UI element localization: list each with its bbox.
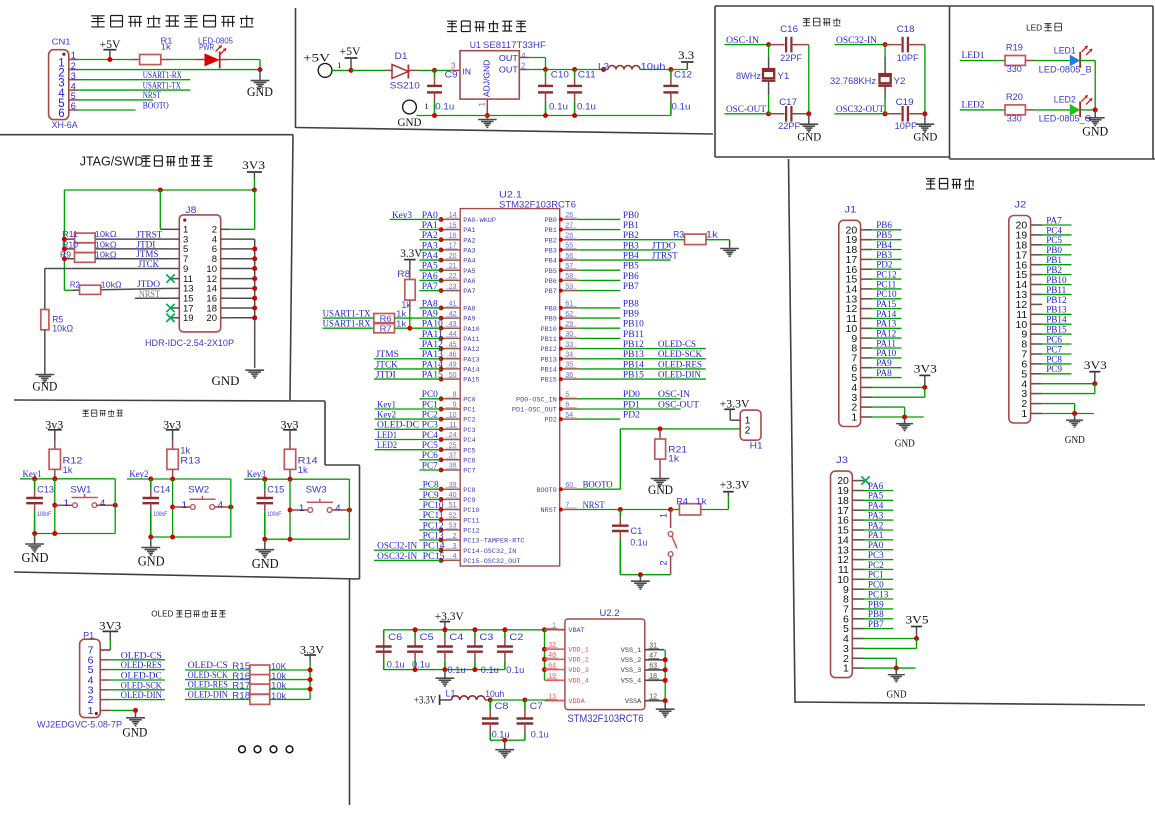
svg-text:JTCK: JTCK bbox=[138, 259, 159, 269]
svg-text:LED: LED bbox=[1026, 24, 1042, 33]
svg-text:PA3: PA3 bbox=[868, 511, 884, 521]
svg-text:C6: C6 bbox=[388, 632, 402, 643]
svg-text:OUT: OUT bbox=[499, 53, 518, 63]
svg-text:PA8: PA8 bbox=[463, 306, 475, 314]
svg-text:PB7: PB7 bbox=[545, 288, 557, 296]
svg-text:2: 2 bbox=[745, 425, 751, 436]
svg-text:VDD_3: VDD_3 bbox=[568, 667, 588, 675]
svg-text:U1: U1 bbox=[470, 40, 481, 50]
svg-text:+5V: +5V bbox=[303, 53, 331, 65]
svg-text:R15: R15 bbox=[232, 661, 250, 671]
svg-text:1: 1 bbox=[1021, 408, 1027, 420]
svg-text:PB9: PB9 bbox=[545, 316, 557, 324]
svg-text:PC2: PC2 bbox=[463, 417, 475, 425]
svg-text:0.1u: 0.1u bbox=[577, 102, 596, 112]
svg-text:PA10: PA10 bbox=[422, 319, 443, 329]
svg-text:PB5: PB5 bbox=[545, 268, 557, 276]
svg-text:0.1u: 0.1u bbox=[672, 102, 691, 112]
svg-text:VDD_2: VDD_2 bbox=[568, 657, 588, 665]
svg-text:PA9: PA9 bbox=[463, 316, 475, 324]
svg-text:1k: 1k bbox=[396, 319, 407, 329]
svg-text:OLED-DC: OLED-DC bbox=[121, 672, 162, 682]
svg-text:0.1u: 0.1u bbox=[448, 665, 466, 676]
svg-text:D1: D1 bbox=[395, 51, 408, 61]
svg-text:100nF: 100nF bbox=[267, 512, 281, 518]
svg-text:330: 330 bbox=[1007, 113, 1022, 123]
svg-text:PB2: PB2 bbox=[623, 230, 639, 240]
svg-text:OUT: OUT bbox=[499, 64, 518, 74]
svg-text:OLED-DIN: OLED-DIN bbox=[188, 691, 228, 701]
svg-text:VSS_3: VSS_3 bbox=[621, 667, 641, 675]
svg-text:ADJ/GND: ADJ/GND bbox=[482, 60, 492, 97]
svg-text:OLED-SCK: OLED-SCK bbox=[658, 349, 702, 359]
svg-text:OLED-CS: OLED-CS bbox=[188, 661, 228, 671]
svg-text:10uh: 10uh bbox=[485, 689, 504, 700]
svg-text:OLED-CS: OLED-CS bbox=[121, 651, 162, 661]
svg-text:0.1u: 0.1u bbox=[630, 537, 647, 548]
svg-text:PA0: PA0 bbox=[868, 540, 884, 550]
svg-text:OSC32-IN: OSC32-IN bbox=[377, 551, 417, 561]
svg-text:GND: GND bbox=[1082, 124, 1108, 138]
svg-text:PB1: PB1 bbox=[623, 220, 639, 230]
svg-text:VBAT: VBAT bbox=[568, 627, 584, 635]
svg-text:PB10: PB10 bbox=[540, 326, 556, 334]
svg-text:PA0: PA0 bbox=[422, 210, 438, 220]
svg-text:JTDO: JTDO bbox=[652, 240, 676, 250]
svg-text:4: 4 bbox=[71, 81, 76, 91]
svg-text:JTRST: JTRST bbox=[136, 230, 162, 240]
svg-text:PA8: PA8 bbox=[422, 298, 438, 308]
svg-text:1: 1 bbox=[182, 500, 187, 511]
svg-text:PC13: PC13 bbox=[423, 530, 444, 540]
svg-text:0.1u: 0.1u bbox=[481, 665, 499, 676]
svg-text:PB9: PB9 bbox=[623, 309, 639, 319]
svg-text:JTDI: JTDI bbox=[136, 239, 155, 249]
svg-text:PA2: PA2 bbox=[868, 520, 884, 530]
svg-text:PA13: PA13 bbox=[876, 319, 896, 329]
svg-text:PB6: PB6 bbox=[876, 220, 892, 230]
svg-text:PA11: PA11 bbox=[876, 338, 896, 348]
svg-text:0.1u: 0.1u bbox=[549, 102, 568, 112]
svg-text:OLED-DIN: OLED-DIN bbox=[121, 691, 162, 701]
svg-text:4: 4 bbox=[100, 498, 105, 509]
svg-text:PA13: PA13 bbox=[422, 349, 443, 359]
svg-text:PB15: PB15 bbox=[540, 377, 556, 385]
svg-text:PC5: PC5 bbox=[463, 447, 475, 455]
svg-text:Y1: Y1 bbox=[777, 71, 789, 81]
svg-text:+3.3V: +3.3V bbox=[414, 695, 437, 707]
svg-text:LED-0805_G: LED-0805_G bbox=[1039, 114, 1092, 124]
svg-text:PB14: PB14 bbox=[540, 367, 556, 375]
svg-text:PC15: PC15 bbox=[423, 551, 445, 561]
svg-text:Key2: Key2 bbox=[377, 410, 396, 420]
svg-text:Key1: Key1 bbox=[377, 399, 396, 409]
svg-text:J1: J1 bbox=[844, 204, 856, 215]
svg-text:4: 4 bbox=[335, 503, 340, 514]
svg-text:USART1-RX: USART1-RX bbox=[323, 319, 371, 329]
svg-text:10uh: 10uh bbox=[641, 62, 666, 72]
svg-text:PA7: PA7 bbox=[1046, 215, 1062, 225]
svg-text:PC7: PC7 bbox=[422, 460, 438, 470]
svg-text:PC14-OSC32_IN: PC14-OSC32_IN bbox=[463, 548, 516, 556]
svg-text:1k: 1k bbox=[668, 453, 679, 464]
svg-text:1: 1 bbox=[71, 51, 76, 61]
svg-text:PA2: PA2 bbox=[463, 237, 475, 245]
svg-text:1k: 1k bbox=[161, 42, 172, 52]
svg-text:PC11: PC11 bbox=[876, 279, 896, 289]
svg-text:R19: R19 bbox=[1006, 43, 1023, 53]
svg-text:1: 1 bbox=[299, 503, 304, 514]
svg-text:22PF: 22PF bbox=[778, 121, 801, 131]
svg-text:1: 1 bbox=[851, 412, 857, 424]
svg-text:PA5: PA5 bbox=[868, 491, 884, 501]
svg-text:0.1u: 0.1u bbox=[387, 660, 405, 671]
svg-text:PC6: PC6 bbox=[422, 450, 438, 460]
svg-text:0.1u: 0.1u bbox=[492, 730, 510, 741]
svg-text:PA2: PA2 bbox=[422, 230, 438, 240]
svg-text:PC13: PC13 bbox=[868, 589, 889, 599]
svg-text:PC1: PC1 bbox=[463, 407, 475, 415]
svg-text:JTRST: JTRST bbox=[652, 251, 678, 261]
svg-text:PA12: PA12 bbox=[422, 339, 443, 349]
svg-text:GND: GND bbox=[398, 117, 422, 129]
svg-text:GND: GND bbox=[913, 132, 937, 144]
svg-text:1k: 1k bbox=[180, 446, 191, 456]
svg-text:PC2: PC2 bbox=[422, 410, 438, 420]
svg-text:3V5: 3V5 bbox=[906, 615, 929, 627]
svg-text:10kΩ: 10kΩ bbox=[52, 324, 73, 334]
svg-text:PB5: PB5 bbox=[876, 230, 892, 240]
svg-text:PC4: PC4 bbox=[463, 437, 475, 445]
svg-text:4: 4 bbox=[521, 52, 526, 61]
svg-text:PA14: PA14 bbox=[422, 359, 443, 369]
svg-text:PWR: PWR bbox=[199, 42, 214, 52]
svg-text:100nF: 100nF bbox=[153, 512, 167, 518]
svg-text:0.1u: 0.1u bbox=[412, 660, 430, 671]
svg-text:HDR-IDC-2.54-2X10P: HDR-IDC-2.54-2X10P bbox=[145, 338, 234, 349]
svg-text:GND: GND bbox=[1065, 435, 1085, 446]
svg-text:JTAG/SWD: JTAG/SWD bbox=[80, 154, 144, 168]
svg-text:NRST: NRST bbox=[583, 500, 605, 510]
svg-text:3.3: 3.3 bbox=[678, 50, 694, 62]
svg-text:PA1: PA1 bbox=[422, 220, 438, 230]
svg-text:PC5: PC5 bbox=[422, 440, 438, 450]
svg-text:NRST: NRST bbox=[540, 507, 556, 515]
svg-text:OLED-SCK: OLED-SCK bbox=[121, 681, 162, 691]
svg-text:22PF: 22PF bbox=[780, 53, 803, 63]
svg-text:PC12: PC12 bbox=[423, 520, 444, 530]
svg-text:PB12: PB12 bbox=[1046, 295, 1067, 305]
svg-text:GND: GND bbox=[895, 439, 915, 450]
svg-text:5: 5 bbox=[71, 91, 76, 101]
svg-text:R17: R17 bbox=[232, 680, 250, 690]
svg-text:PB4: PB4 bbox=[545, 258, 557, 266]
svg-text:C17: C17 bbox=[779, 97, 797, 107]
svg-text:USART1-TX: USART1-TX bbox=[143, 81, 181, 91]
svg-text:R14: R14 bbox=[298, 455, 318, 465]
svg-text:3V3: 3V3 bbox=[1084, 360, 1107, 372]
svg-text:VSS_1: VSS_1 bbox=[621, 647, 641, 655]
svg-text:J2: J2 bbox=[1014, 200, 1026, 211]
svg-text:PB1: PB1 bbox=[1046, 255, 1062, 265]
svg-text:GND: GND bbox=[247, 85, 273, 99]
svg-text:1: 1 bbox=[659, 513, 669, 518]
svg-text:C4: C4 bbox=[449, 632, 463, 643]
svg-text:GND: GND bbox=[138, 555, 165, 570]
svg-text:PA3: PA3 bbox=[422, 240, 438, 250]
svg-text:VSS_4: VSS_4 bbox=[621, 678, 641, 686]
svg-text:PB5: PB5 bbox=[623, 261, 639, 271]
svg-text:6: 6 bbox=[71, 101, 76, 111]
svg-text:PC13-TAMPER-RTC: PC13-TAMPER-RTC bbox=[463, 538, 524, 546]
svg-text:PA3: PA3 bbox=[463, 248, 475, 256]
svg-text:C1: C1 bbox=[630, 526, 642, 537]
svg-text:VDDA: VDDA bbox=[568, 698, 585, 706]
svg-text:+5V: +5V bbox=[340, 46, 362, 58]
svg-text:PB12: PB12 bbox=[623, 339, 644, 349]
svg-text:C19: C19 bbox=[896, 97, 914, 107]
svg-text:PD0: PD0 bbox=[623, 389, 640, 399]
svg-text:2: 2 bbox=[71, 61, 76, 71]
svg-text:PC12: PC12 bbox=[463, 528, 479, 536]
svg-text:C14: C14 bbox=[153, 485, 170, 496]
svg-text:C18: C18 bbox=[897, 24, 915, 34]
svg-text:PB7: PB7 bbox=[623, 281, 639, 291]
svg-text:PA14: PA14 bbox=[876, 309, 896, 319]
svg-text:PC3: PC3 bbox=[463, 427, 475, 435]
svg-text:10kΩ: 10kΩ bbox=[101, 280, 122, 290]
svg-text:BOOTO: BOOTO bbox=[143, 101, 169, 111]
svg-text:VDD_1: VDD_1 bbox=[568, 647, 588, 655]
svg-text:R3: R3 bbox=[673, 230, 684, 240]
svg-text:10kΩ: 10kΩ bbox=[95, 239, 117, 249]
svg-text:PC0: PC0 bbox=[868, 580, 884, 590]
svg-text:C3: C3 bbox=[479, 632, 493, 643]
svg-text:10kΩ: 10kΩ bbox=[95, 249, 117, 259]
svg-text:2: 2 bbox=[659, 560, 669, 565]
svg-text:PA1: PA1 bbox=[463, 227, 475, 235]
svg-text:PB8: PB8 bbox=[623, 298, 639, 308]
svg-text:PB4: PB4 bbox=[623, 251, 639, 261]
svg-text:PC8: PC8 bbox=[463, 487, 475, 495]
svg-text:PC4: PC4 bbox=[1046, 225, 1062, 235]
svg-text:+3.3V: +3.3V bbox=[720, 398, 751, 410]
svg-text:C15: C15 bbox=[267, 485, 284, 496]
svg-text:SE8117T33HF: SE8117T33HF bbox=[483, 40, 547, 50]
svg-text:GND: GND bbox=[32, 379, 57, 393]
svg-text:PB0: PB0 bbox=[1046, 245, 1062, 255]
svg-text:3.3V: 3.3V bbox=[400, 248, 423, 260]
svg-text:U2.2: U2.2 bbox=[600, 608, 620, 619]
svg-text:L1: L1 bbox=[446, 689, 456, 700]
svg-text:PB10: PB10 bbox=[1046, 275, 1067, 285]
svg-text:PB3: PB3 bbox=[623, 240, 639, 250]
svg-text:PB8: PB8 bbox=[868, 609, 884, 619]
svg-text:LED1: LED1 bbox=[377, 430, 397, 440]
svg-text:STM32F103RCT6: STM32F103RCT6 bbox=[568, 713, 644, 725]
svg-text:PD2: PD2 bbox=[623, 410, 640, 420]
svg-text:3: 3 bbox=[451, 62, 456, 71]
svg-text:PC9: PC9 bbox=[423, 490, 439, 500]
svg-text:PC0: PC0 bbox=[463, 396, 475, 404]
svg-text:+3.3V: +3.3V bbox=[720, 480, 751, 492]
svg-text:OSC-OUT: OSC-OUT bbox=[658, 399, 699, 409]
svg-text:C13: C13 bbox=[37, 485, 54, 496]
svg-text:PC2: PC2 bbox=[868, 560, 884, 570]
svg-text:BOOT0: BOOT0 bbox=[536, 487, 556, 495]
svg-text:R6: R6 bbox=[380, 314, 392, 324]
svg-text:USART1-TX: USART1-TX bbox=[323, 309, 371, 319]
svg-text:LED2: LED2 bbox=[1054, 95, 1076, 105]
svg-text:OSC32-IN: OSC32-IN bbox=[377, 541, 417, 551]
svg-text:PA10: PA10 bbox=[463, 326, 479, 334]
svg-text:PC10: PC10 bbox=[463, 507, 479, 515]
svg-text:PC11: PC11 bbox=[423, 510, 444, 520]
svg-text:OLED-CS: OLED-CS bbox=[658, 339, 696, 349]
svg-text:0.1u: 0.1u bbox=[435, 102, 454, 112]
svg-text:PA4: PA4 bbox=[422, 251, 438, 261]
svg-text:PD1: PD1 bbox=[623, 399, 640, 409]
svg-text:PC9: PC9 bbox=[463, 497, 475, 505]
svg-text:C8: C8 bbox=[495, 701, 509, 712]
svg-text:3V3: 3V3 bbox=[242, 160, 265, 172]
svg-text:C11: C11 bbox=[578, 70, 596, 80]
svg-text:PC10: PC10 bbox=[876, 289, 897, 299]
svg-text:PA0-WKUP: PA0-WKUP bbox=[463, 217, 496, 225]
svg-text:R16: R16 bbox=[232, 671, 250, 681]
svg-text:PB15: PB15 bbox=[1046, 325, 1067, 335]
svg-text:1k: 1k bbox=[706, 230, 719, 240]
svg-text:JTMS: JTMS bbox=[376, 349, 399, 359]
svg-text:VSS_2: VSS_2 bbox=[621, 657, 641, 665]
svg-text:R9: R9 bbox=[60, 249, 71, 259]
svg-text:1: 1 bbox=[64, 498, 69, 509]
svg-text:OLED-DIN: OLED-DIN bbox=[658, 370, 701, 380]
svg-text:GND: GND bbox=[797, 132, 821, 144]
svg-text:1: 1 bbox=[424, 101, 428, 111]
svg-text:OLED-RES: OLED-RES bbox=[121, 661, 162, 671]
svg-text:OLED: OLED bbox=[151, 610, 173, 619]
svg-text:PD0-OSC_IN: PD0-OSC_IN bbox=[516, 396, 557, 404]
svg-text:Key1: Key1 bbox=[23, 469, 42, 479]
svg-text:C12: C12 bbox=[674, 70, 692, 80]
svg-text:JTDI: JTDI bbox=[376, 370, 396, 380]
svg-text:PA11: PA11 bbox=[422, 329, 443, 339]
svg-text:PB12: PB12 bbox=[540, 346, 556, 354]
svg-text:R10: R10 bbox=[62, 239, 78, 249]
svg-text:PB13: PB13 bbox=[1046, 305, 1067, 315]
svg-text:PB0: PB0 bbox=[623, 210, 639, 220]
svg-text:GND: GND bbox=[648, 483, 673, 497]
svg-text:PC1: PC1 bbox=[868, 570, 884, 580]
svg-text:OSC-IN: OSC-IN bbox=[658, 389, 690, 399]
svg-text:PC6: PC6 bbox=[463, 457, 475, 465]
svg-text:WJ2EDGVC-5.08-7P: WJ2EDGVC-5.08-7P bbox=[37, 720, 122, 731]
svg-text:1k: 1k bbox=[63, 465, 74, 475]
svg-text:1k: 1k bbox=[298, 465, 309, 475]
svg-text:R11: R11 bbox=[62, 229, 78, 239]
svg-text:PD1-OSC_OUT: PD1-OSC_OUT bbox=[512, 407, 557, 415]
svg-text:PA7: PA7 bbox=[463, 288, 475, 296]
svg-text:C2: C2 bbox=[509, 632, 523, 643]
svg-text:PA9: PA9 bbox=[422, 309, 438, 319]
svg-text:PB8: PB8 bbox=[545, 306, 557, 314]
svg-text:OLED-RES: OLED-RES bbox=[188, 680, 228, 690]
svg-text:H1: H1 bbox=[750, 441, 763, 452]
svg-text:XH-6A: XH-6A bbox=[52, 120, 79, 131]
svg-text:PC12: PC12 bbox=[876, 269, 897, 279]
svg-text:PC1: PC1 bbox=[422, 399, 438, 409]
svg-text:J8: J8 bbox=[185, 205, 196, 215]
svg-text:PA8: PA8 bbox=[876, 368, 892, 378]
svg-text:PA15: PA15 bbox=[422, 370, 443, 380]
svg-text:JTDO: JTDO bbox=[137, 279, 160, 289]
svg-text:VSSA: VSSA bbox=[625, 698, 642, 706]
svg-text:PC7: PC7 bbox=[463, 468, 475, 476]
svg-text:1k: 1k bbox=[396, 309, 407, 319]
svg-text:SW1: SW1 bbox=[70, 485, 91, 496]
svg-text:Key2: Key2 bbox=[129, 469, 148, 479]
svg-text:PA12: PA12 bbox=[463, 346, 479, 354]
svg-text:4: 4 bbox=[218, 500, 223, 511]
svg-text:R7: R7 bbox=[380, 324, 392, 334]
svg-text:8WHz: 8WHz bbox=[736, 71, 762, 81]
svg-text:C16: C16 bbox=[780, 24, 798, 34]
svg-text:PB13: PB13 bbox=[623, 349, 644, 359]
svg-text:PB14: PB14 bbox=[1046, 315, 1067, 325]
svg-text:PD2: PD2 bbox=[545, 417, 557, 425]
svg-text:PC6: PC6 bbox=[1046, 334, 1062, 344]
svg-text:3V3: 3V3 bbox=[914, 364, 937, 376]
svg-text:R12: R12 bbox=[63, 455, 83, 465]
svg-text:LED1: LED1 bbox=[962, 50, 985, 60]
svg-text:1: 1 bbox=[337, 60, 341, 70]
svg-text:PC4: PC4 bbox=[422, 430, 438, 440]
svg-text:PA6: PA6 bbox=[422, 271, 438, 281]
svg-text:PC3: PC3 bbox=[868, 550, 884, 560]
svg-text:330: 330 bbox=[1007, 64, 1022, 74]
svg-text:PB7: PB7 bbox=[868, 619, 884, 629]
svg-text:LED2: LED2 bbox=[377, 440, 397, 450]
svg-text:GND: GND bbox=[252, 557, 279, 572]
svg-text:PA15: PA15 bbox=[463, 377, 479, 385]
svg-text:20: 20 bbox=[206, 313, 217, 324]
svg-text:10kΩ: 10kΩ bbox=[95, 229, 117, 239]
svg-text:PD2: PD2 bbox=[876, 260, 893, 270]
svg-text:R2: R2 bbox=[70, 280, 80, 290]
svg-text:PA12: PA12 bbox=[876, 329, 896, 339]
svg-text:PB9: PB9 bbox=[868, 599, 884, 609]
svg-text:PA9: PA9 bbox=[876, 358, 892, 368]
svg-text:C5: C5 bbox=[420, 632, 434, 643]
svg-text:LED1: LED1 bbox=[1054, 45, 1076, 55]
svg-text:19: 19 bbox=[183, 313, 194, 324]
svg-text:PB3: PB3 bbox=[545, 248, 557, 256]
svg-text:1k: 1k bbox=[696, 496, 707, 507]
svg-text:PB4: PB4 bbox=[876, 240, 892, 250]
svg-text:PA14: PA14 bbox=[463, 367, 479, 375]
svg-text:PA13: PA13 bbox=[463, 356, 479, 364]
svg-text:PA6: PA6 bbox=[868, 481, 884, 491]
svg-text:PB3: PB3 bbox=[876, 250, 892, 260]
svg-text:CN1: CN1 bbox=[52, 37, 71, 47]
svg-text:LED-0805_B: LED-0805_B bbox=[1039, 64, 1092, 74]
svg-text:JTCK: JTCK bbox=[376, 359, 398, 369]
svg-text:PB11: PB11 bbox=[540, 336, 556, 344]
svg-text:OSC-IN: OSC-IN bbox=[726, 35, 759, 45]
svg-text:0.1u: 0.1u bbox=[506, 665, 524, 676]
svg-text:PA11: PA11 bbox=[463, 336, 479, 344]
